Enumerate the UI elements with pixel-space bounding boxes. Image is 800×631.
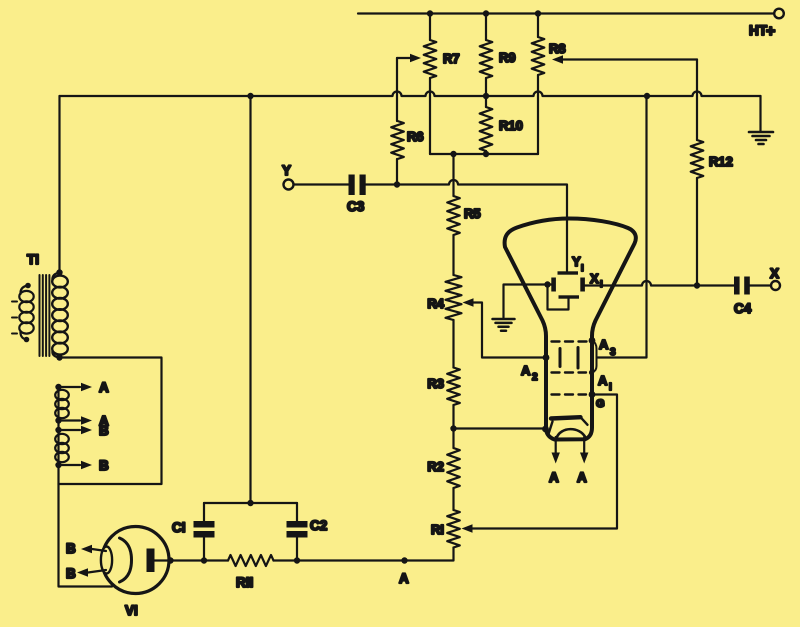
svg-text:X: X [770, 266, 779, 281]
tube V1 cathode [120, 538, 132, 582]
wire R11 to R1 (node A) [274, 548, 454, 564]
CRT heater lead 2 (connector A) [577, 437, 588, 485]
wire R3 to R2 (cathode node) [450, 405, 456, 448]
tap A at y=420.5 [55, 414, 109, 429]
resistor R2 [427, 448, 459, 488]
wire lower Y1 plate to ground junction [544, 281, 568, 309]
svg-text:R10: R10 [499, 118, 523, 133]
wire R9 bottom to R10 top [483, 78, 489, 107]
svg-text:R9: R9 [499, 50, 516, 65]
wire main horizontal bus (with hops) [60, 92, 761, 100]
svg-text:RII: RII [236, 575, 253, 590]
capacitor C1 [172, 503, 215, 561]
ground (top right) [749, 132, 773, 144]
resistor R9 [480, 40, 516, 78]
wire bus to C1/C2 link [249, 96, 251, 503]
wire R7 wiper arm [397, 54, 421, 62]
resistor R4 (potentiometer) [427, 275, 461, 320]
CRT dashed electrode line 2 [552, 371, 587, 373]
transformer T1 secondary winding [52, 269, 68, 360]
svg-text:A: A [521, 363, 531, 378]
wire wiper to R6 [396, 58, 398, 121]
resistor R7 (potentiometer) [424, 40, 460, 78]
wire bus right drop to ground [759, 96, 761, 131]
CRT heater dome [557, 429, 586, 438]
anode A3 terminal + bow [589, 337, 597, 372]
label A2 [521, 363, 538, 383]
wire rail to R8 [537, 14, 539, 38]
svg-text:R8: R8 [549, 41, 566, 56]
capacitor C3 [347, 175, 366, 215]
svg-text:CI: CI [172, 520, 186, 535]
svg-text:B: B [66, 566, 76, 581]
tap A at y=387 [55, 380, 109, 395]
node rail-R9 [483, 10, 489, 16]
bottom white strip [0, 627, 800, 631]
svg-text:RI: RI [431, 522, 444, 537]
svg-text:A: A [549, 470, 559, 485]
wire T1 secondary bottom to V1 loop [59, 358, 162, 485]
connector B lower at V1 [66, 566, 106, 581]
capacitor C2 [287, 503, 328, 561]
CRT dashed electrode line 1 [552, 340, 589, 342]
wire R7 bottom to 154-rail [429, 78, 431, 154]
label A3 [599, 337, 616, 358]
wire left X1 plate to ground [504, 285, 552, 318]
inductor heater winding 1 [55, 390, 69, 418]
svg-text:A: A [399, 571, 409, 586]
svg-text:R3: R3 [427, 376, 444, 391]
transformer T1 label [27, 252, 39, 267]
wire HT+ supply rail [358, 12, 774, 14]
node A label [399, 571, 409, 586]
svg-text:C4: C4 [734, 301, 752, 316]
label A1 [598, 373, 612, 393]
CRT dashed electrode line 3 [552, 393, 587, 395]
connector B upper at V1 [66, 541, 106, 556]
resistor R11 [228, 555, 274, 590]
svg-text:X: X [590, 271, 599, 286]
wire C1-C2 top link [204, 500, 297, 506]
wire R10 bottom stub [485, 151, 487, 154]
resistor R10 [480, 107, 523, 151]
svg-text:R7: R7 [443, 51, 460, 66]
tap B at y=465 [55, 458, 109, 473]
CRT cathode plate [549, 417, 588, 434]
svg-text:R4: R4 [427, 296, 444, 311]
inductor heater winding 2 [55, 434, 69, 462]
wire cathode node to CRT [454, 426, 549, 433]
wire R4 wiper to A2 [463, 298, 544, 357]
wire heater winding spine down to V1 [59, 387, 113, 587]
node rail-R7 [427, 10, 433, 16]
CRT heater lead 1 (connector A) [549, 437, 560, 485]
tube V1 envelope [102, 527, 169, 594]
tube V1 base ellipse [101, 547, 112, 574]
svg-text:G: G [596, 398, 605, 410]
resistor R8 (potentiometer) [532, 37, 566, 75]
resistor R1 (potentiometer) [431, 510, 460, 548]
svg-text:B: B [99, 423, 109, 438]
CRT envelope [505, 219, 636, 440]
svg-text:B: B [99, 458, 109, 473]
anode A1 terminal [589, 370, 594, 375]
wire C3 to Y1 plate (with hop over R5 line) [364, 180, 567, 271]
svg-text:A: A [599, 337, 609, 352]
svg-text:R5: R5 [464, 206, 481, 221]
svg-text:VI: VI [125, 603, 138, 618]
svg-text:C3: C3 [347, 199, 365, 214]
node rail-R8 [535, 10, 541, 16]
wire R6 bottom to Y line [394, 159, 400, 188]
svg-text:Y: Y [282, 163, 291, 178]
wire Y to C3 [294, 183, 350, 185]
wire 154-rail to R5 [452, 154, 454, 196]
terminal Y [282, 163, 294, 190]
resistor R3 [427, 368, 459, 406]
svg-text:R2: R2 [427, 459, 444, 474]
wire bus left drop to T1 [58, 96, 60, 273]
wire wiper to R12 [696, 60, 698, 141]
svg-text:R12: R12 [709, 154, 733, 169]
svg-text:A: A [598, 373, 608, 388]
wire R5 to R4 [452, 235, 454, 275]
svg-text:B: B [66, 541, 76, 556]
terminal X [750, 266, 781, 290]
wire R8 bottom to 154-rail [537, 75, 539, 154]
svg-text:3: 3 [610, 347, 616, 358]
tap B at y=430 [55, 423, 109, 438]
anode A2 terminal [543, 354, 550, 361]
terminal HT+ [749, 9, 784, 40]
wire R2 to R1 [452, 488, 454, 510]
transformer T1 core [40, 275, 50, 356]
resistor R12 [691, 140, 733, 178]
CRT focus electrode bars [560, 348, 578, 369]
resistor R6 [391, 121, 423, 159]
resistor R5 [447, 196, 480, 235]
svg-text:C2: C2 [310, 518, 327, 533]
CRT deflection plates Y1 [558, 254, 584, 299]
transformer T1 primary winding [12, 283, 34, 343]
ground (CRT plates) [493, 319, 515, 331]
CRT deflection plates X1 [551, 271, 602, 292]
label G [596, 398, 605, 410]
wire R8 wiper arm [552, 55, 697, 63]
svg-text:TI: TI [27, 252, 39, 267]
wire rail to R7 [429, 14, 431, 41]
tube V1 anode [147, 549, 155, 573]
wire R12 bottom to X line [694, 178, 700, 289]
svg-text:I: I [581, 263, 584, 274]
wire rail to R9 [485, 14, 487, 41]
wire A3 line from bus [597, 96, 647, 358]
wire V1 anode to R11 [155, 557, 229, 563]
wire right X1 plate to C4 (with hop over A3 line) [585, 281, 734, 286]
wire R1 wiper to grid G [462, 395, 618, 533]
svg-text:R6: R6 [407, 129, 424, 144]
svg-text:A: A [99, 380, 109, 395]
wire bleeder bottom rail [430, 151, 538, 157]
svg-text:2: 2 [532, 372, 538, 383]
tube V1 label [125, 603, 138, 618]
svg-text:Y: Y [572, 254, 581, 269]
capacitor C4 [734, 277, 752, 317]
grid G terminal [589, 391, 596, 398]
svg-text:A: A [577, 470, 587, 485]
svg-text:HT: HT [749, 23, 768, 38]
svg-text:I: I [609, 382, 612, 393]
svg-text:+: + [766, 23, 775, 40]
wire R4 to R3 [452, 320, 454, 368]
